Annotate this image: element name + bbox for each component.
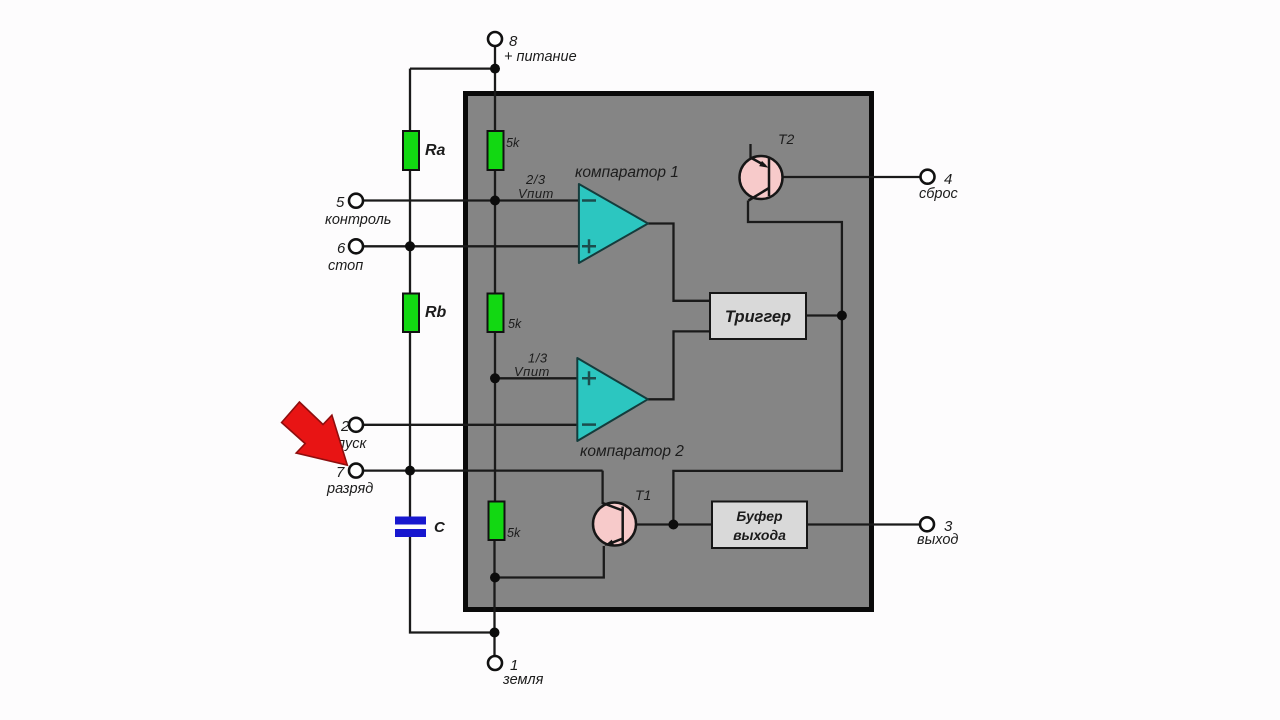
svg-text:5: 5 bbox=[336, 194, 345, 211]
svg-text:компаратор 2: компаратор 2 bbox=[580, 443, 684, 460]
svg-text:стоп: стоп bbox=[328, 258, 363, 274]
svg-text:T1: T1 bbox=[635, 487, 651, 503]
svg-text:выход: выход bbox=[917, 532, 958, 548]
svg-text:7: 7 bbox=[336, 464, 345, 481]
svg-text:6: 6 bbox=[337, 240, 346, 257]
svg-text:5k: 5k bbox=[508, 317, 522, 331]
svg-text:C: C bbox=[434, 519, 446, 536]
svg-text:Буфер: Буфер bbox=[736, 508, 783, 524]
svg-text:Rb: Rb bbox=[425, 304, 447, 321]
svg-text:сброс: сброс bbox=[919, 186, 959, 202]
svg-text:2/3: 2/3 bbox=[525, 172, 546, 187]
svg-text:8: 8 bbox=[509, 33, 518, 50]
svg-text:Vпит: Vпит bbox=[518, 186, 554, 201]
svg-text:Триггер: Триггер bbox=[725, 308, 791, 326]
svg-text:Vпит: Vпит bbox=[514, 364, 550, 379]
svg-text:земля: земля bbox=[502, 672, 544, 688]
svg-text:+ питание: + питание bbox=[504, 49, 577, 65]
svg-text:разряд: разряд bbox=[326, 481, 373, 497]
svg-text:выхода: выхода bbox=[733, 527, 786, 543]
svg-text:T2: T2 bbox=[778, 131, 795, 147]
svg-text:Ra: Ra bbox=[425, 142, 446, 159]
svg-text:компаратор 1: компаратор 1 bbox=[575, 164, 679, 181]
svg-text:2: 2 bbox=[340, 418, 350, 435]
svg-text:5k: 5k bbox=[506, 136, 520, 150]
svg-text:5k: 5k bbox=[507, 526, 521, 540]
svg-text:контроль: контроль bbox=[325, 212, 391, 228]
